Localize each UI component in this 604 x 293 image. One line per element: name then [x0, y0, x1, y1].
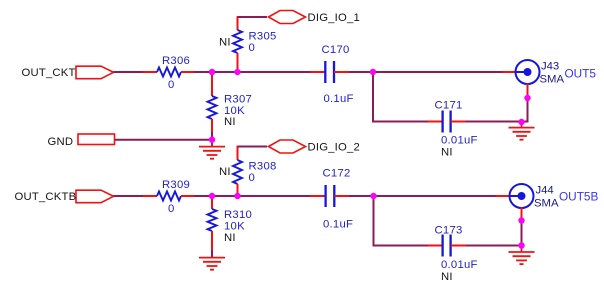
svg-text:NI: NI	[224, 116, 236, 128]
svg-text:C173: C173	[435, 225, 463, 237]
svg-text:C172: C172	[323, 168, 351, 180]
port DIG_IO_1	[269, 11, 360, 24]
wire node F to J44	[374, 195, 511, 197]
wire node F down to C173 line	[373, 196, 375, 246]
svg-text:GND: GND	[48, 136, 74, 148]
capacitor C171	[435, 100, 478, 159]
svg-text:0: 0	[249, 42, 256, 54]
wire R307 to gnd node	[211, 119, 213, 140]
svg-text:C171: C171	[435, 100, 463, 112]
ground at J43	[509, 122, 535, 140]
wire R308 top to DIG_IO_2	[238, 146, 268, 160]
resistor R306	[157, 55, 190, 91]
wire OUT_CKTB to R309	[114, 195, 158, 197]
svg-text:0: 0	[168, 203, 175, 215]
wire node C down to C171 line	[372, 72, 374, 122]
wire C171 line left segment	[372, 121, 442, 123]
ground under R307	[199, 141, 225, 159]
node D junction	[209, 193, 215, 199]
svg-text:SMA: SMA	[540, 74, 565, 86]
wire node E to C172	[238, 195, 326, 197]
wire C171 to J43 branch	[451, 121, 529, 123]
wire R310 to ground	[211, 231, 213, 258]
svg-text:SMA: SMA	[534, 198, 559, 210]
svg-text:0: 0	[249, 172, 256, 184]
wire node D to node E	[212, 195, 238, 197]
wire C172 to node F	[334, 195, 373, 197]
svg-text:OUT5B: OUT5B	[559, 190, 598, 204]
svg-text:NI: NI	[441, 271, 453, 283]
wire node A to node B	[212, 71, 238, 73]
port OUT_CKTB	[15, 190, 114, 203]
gnd node junction	[209, 137, 215, 143]
svg-text:0.01uF: 0.01uF	[441, 259, 478, 271]
svg-text:NI: NI	[219, 37, 231, 49]
svg-text:0.1uF: 0.1uF	[324, 93, 354, 105]
svg-text:NI: NI	[224, 232, 236, 244]
svg-text:OUT_CKT: OUT_CKT	[22, 67, 76, 79]
node C junction	[370, 69, 376, 75]
port OUT_CKT	[22, 66, 114, 79]
svg-text:J44: J44	[536, 185, 554, 197]
svg-text:DIG_IO_2: DIG_IO_2	[308, 141, 360, 153]
wire R309 to node D	[181, 195, 212, 197]
ground at J44	[509, 246, 535, 265]
node B junction	[234, 69, 240, 75]
resistor R309	[157, 179, 190, 215]
svg-text:R306: R306	[162, 55, 190, 67]
junction at J44 ground attach	[518, 242, 524, 248]
resistor R310	[208, 196, 253, 244]
svg-text:DIG_IO_1: DIG_IO_1	[308, 12, 360, 24]
junction on J43 gnd wire	[524, 95, 530, 101]
node F junction	[370, 193, 376, 199]
node A junction	[209, 69, 215, 75]
svg-text:R309: R309	[162, 179, 190, 191]
capacitor C172	[323, 168, 354, 231]
svg-text:OUT_CKTB: OUT_CKTB	[15, 191, 77, 203]
wire OUT_CKT to R306	[114, 71, 158, 73]
svg-text:R307: R307	[224, 94, 252, 106]
wire C173 line left segment	[373, 245, 443, 247]
wire C173 to J44 branch	[451, 245, 523, 247]
port GND	[48, 134, 115, 148]
svg-text:C170: C170	[322, 44, 350, 56]
capacitor C173	[435, 225, 478, 284]
svg-text:R308: R308	[249, 161, 277, 173]
wire R305 to node B	[237, 53, 239, 72]
svg-text:R305: R305	[249, 31, 277, 43]
wire J44 down to gnd	[521, 207, 523, 245]
svg-text:0.01uF: 0.01uF	[441, 135, 478, 147]
resistor R308	[219, 160, 277, 184]
wire node B to C170	[238, 71, 326, 73]
wire J43 down to gnd	[527, 83, 529, 122]
resistor R307	[208, 72, 253, 128]
wire R305 top to DIG_IO_1	[238, 16, 268, 30]
wire GND to gnd node	[115, 139, 213, 141]
svg-text:0.1uF: 0.1uF	[323, 219, 353, 231]
capacitor C170	[322, 44, 354, 105]
resistor R305	[219, 30, 277, 54]
svg-text:J43: J43	[541, 61, 559, 73]
port DIG_IO_2	[269, 140, 360, 153]
svg-text:R310: R310	[224, 209, 252, 221]
wire C170 to node C	[334, 71, 373, 73]
svg-text:NI: NI	[441, 147, 453, 159]
ground under R310	[199, 258, 225, 270]
junction at J43 ground attach	[518, 119, 524, 125]
svg-text:10K: 10K	[224, 221, 245, 233]
connector J44 SMA	[510, 184, 559, 210]
connector J43 SMA	[516, 60, 565, 86]
wire node C to J43	[373, 71, 517, 73]
wire R306 to node A	[181, 71, 212, 73]
junction on J44 gnd wire	[518, 217, 524, 223]
svg-text:0: 0	[168, 79, 175, 91]
svg-text:NI: NI	[219, 166, 231, 178]
wire R308 to node E	[237, 184, 239, 196]
node E junction	[234, 193, 240, 199]
svg-text:OUT5: OUT5	[565, 67, 597, 81]
